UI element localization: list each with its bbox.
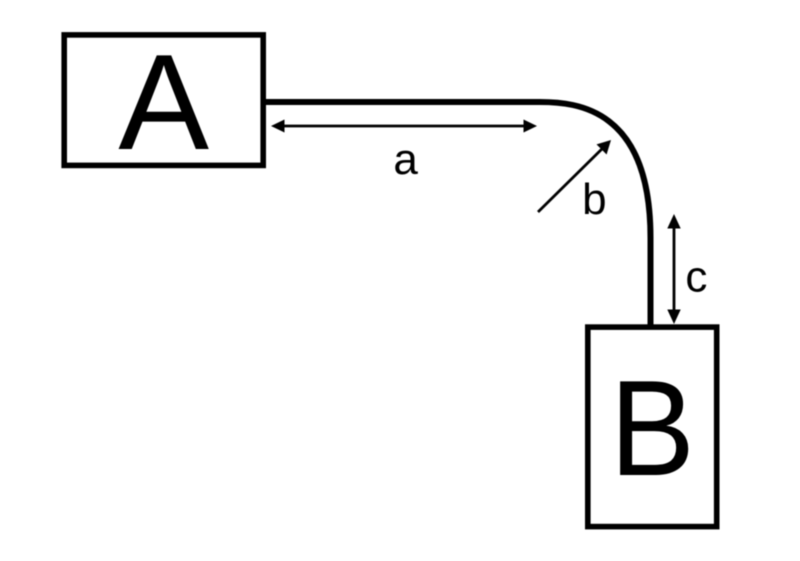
svg-text:B: B — [610, 352, 695, 503]
svg-text:c: c — [685, 252, 707, 301]
svg-text:b: b — [582, 175, 606, 224]
svg-text:a: a — [393, 135, 418, 184]
svg-text:A: A — [118, 26, 209, 178]
